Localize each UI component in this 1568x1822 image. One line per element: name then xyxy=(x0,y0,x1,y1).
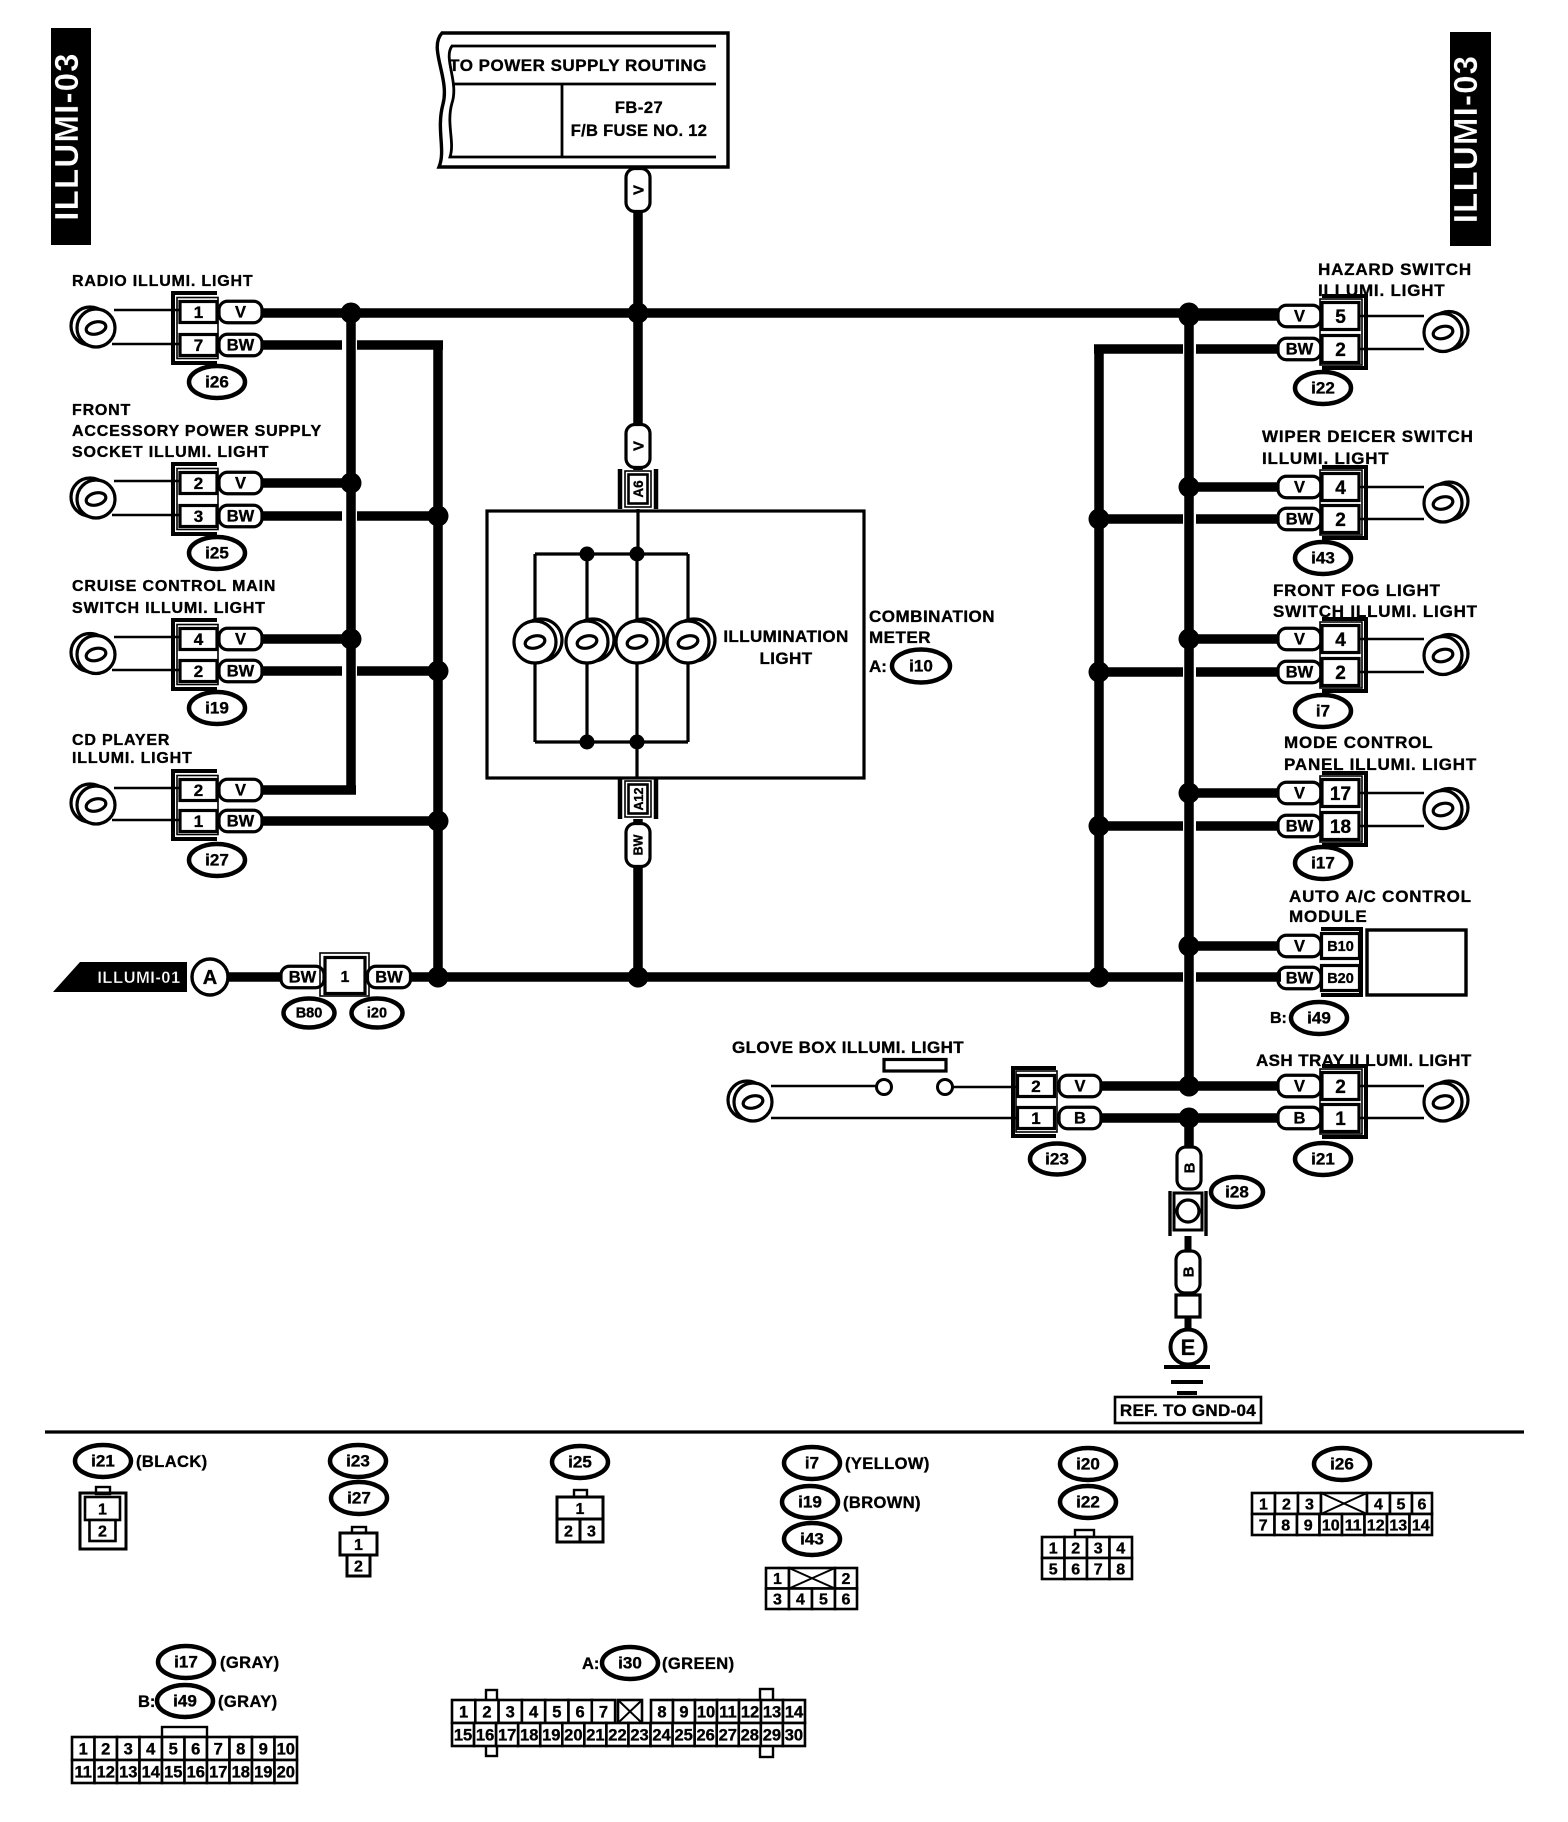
bulb radio illumi light xyxy=(71,307,115,347)
wire V mode control panel illumi light xyxy=(1189,788,1281,798)
meter lamp bottom rail xyxy=(535,740,688,743)
wire V hazard switch illumi light xyxy=(1189,311,1281,321)
svg-text:V: V xyxy=(1294,937,1305,955)
combination meter box xyxy=(487,511,864,778)
svg-text:6: 6 xyxy=(576,1703,585,1721)
legend oval i20 xyxy=(1060,1448,1116,1480)
legend oval i23 xyxy=(330,1445,386,1477)
meter internal return stem xyxy=(635,742,638,778)
svg-text:MODULE: MODULE xyxy=(1289,907,1367,926)
svg-text:i26: i26 xyxy=(205,373,229,392)
legend oval i26 xyxy=(1314,1448,1370,1480)
pin 3 front accessory power supply socket illumi light xyxy=(180,506,217,527)
svg-text:17: 17 xyxy=(498,1726,516,1744)
svg-text:A:: A: xyxy=(582,1655,599,1673)
svg-text:8: 8 xyxy=(657,1703,666,1721)
svg-text:REF. TO GND-04: REF. TO GND-04 xyxy=(1120,1401,1256,1420)
terminal box above ground xyxy=(1176,1295,1200,1317)
svg-text:8: 8 xyxy=(1116,1561,1125,1578)
svg-text:10: 10 xyxy=(697,1703,715,1721)
pinout i26 xyxy=(1252,1493,1432,1535)
svg-text:BW: BW xyxy=(375,968,403,986)
wire BW socket to riser xyxy=(259,511,443,521)
svg-text:i20: i20 xyxy=(1076,1455,1100,1474)
svg-text:CD PLAYER: CD PLAYER xyxy=(72,732,170,749)
svg-text:4: 4 xyxy=(796,1592,805,1609)
wire label V radio illumi light xyxy=(219,301,262,323)
svg-text:5: 5 xyxy=(1049,1561,1058,1578)
svg-text:2: 2 xyxy=(98,1523,107,1540)
svg-text:V: V xyxy=(1294,630,1305,648)
wire BW front fog light switch illumi light xyxy=(1099,667,1281,677)
junction B wire / ground drop xyxy=(1179,1108,1200,1129)
svg-text:i26: i26 xyxy=(1330,1455,1354,1474)
legend oval i27 xyxy=(331,1482,387,1514)
wire label BW radio illumi light xyxy=(219,334,262,356)
svg-text:(GRAY): (GRAY) xyxy=(220,1654,280,1672)
connector oval i43 wiper deicer switch illumi light xyxy=(1295,542,1351,574)
bulb glove box xyxy=(728,1081,772,1121)
wire B glove box to ash tray xyxy=(1101,1113,1281,1123)
wire V front fog light switch illumi light xyxy=(1189,634,1281,644)
svg-text:i17: i17 xyxy=(1311,854,1335,873)
svg-text:3: 3 xyxy=(124,1740,133,1758)
wire to ground E xyxy=(1185,1317,1192,1330)
svg-text:ILLUMI-01: ILLUMI-01 xyxy=(97,969,180,987)
bulb ash tray xyxy=(1424,1081,1468,1121)
wire V main bus to combination meter xyxy=(633,313,643,470)
pinout i21 xyxy=(80,1487,126,1549)
svg-text:B: B xyxy=(1294,1109,1306,1127)
svg-text:1: 1 xyxy=(773,1571,782,1588)
svg-text:17: 17 xyxy=(1330,784,1351,805)
wire label BW cruise control main switch illumi light xyxy=(219,660,262,682)
wire label BW wiper deicer switch illumi light xyxy=(1278,508,1321,530)
svg-text:A12: A12 xyxy=(632,787,646,810)
svg-text:14: 14 xyxy=(785,1703,804,1721)
svg-text:B10: B10 xyxy=(1327,939,1354,955)
legend label B: i49 xyxy=(138,1693,155,1711)
svg-text:3: 3 xyxy=(194,507,203,526)
wire BW hazard switch illumi light xyxy=(1099,344,1281,354)
wire label BW from meter xyxy=(626,824,650,867)
junction left V riser / i25 V xyxy=(341,473,362,494)
svg-text:4: 4 xyxy=(1374,1496,1383,1513)
svg-text:A: A xyxy=(203,967,217,989)
junction meter rail bottom right xyxy=(630,735,645,750)
leads glove box xyxy=(771,1086,1018,1118)
connector outline glove box i23 xyxy=(1016,1071,1057,1132)
svg-text:i19: i19 xyxy=(798,1493,822,1512)
svg-text:6: 6 xyxy=(1418,1496,1427,1513)
svg-text:1: 1 xyxy=(98,1501,107,1518)
glove box switch xyxy=(877,1060,953,1095)
connector bracket hazard switch illumi light xyxy=(1322,296,1366,368)
svg-text:2: 2 xyxy=(1335,1077,1346,1098)
label GLOVE BOX ILLUMI. LIGHT xyxy=(732,1038,964,1057)
svg-text:LIGHT: LIGHT xyxy=(760,649,813,668)
wire label V cd player illumi light xyxy=(219,779,262,801)
svg-text:(BROWN): (BROWN) xyxy=(843,1494,921,1512)
svg-text:5: 5 xyxy=(552,1703,561,1721)
svg-text:WIPER DEICER SWITCH: WIPER DEICER SWITCH xyxy=(1262,427,1474,446)
svg-text:FB-27: FB-27 xyxy=(615,99,663,117)
node A (to ILLUMI-01) xyxy=(192,959,228,995)
wire label BW (B80 side) xyxy=(281,966,324,988)
pin 18 mode control panel illumi light xyxy=(1322,813,1359,840)
auto a/c control module box xyxy=(1367,930,1466,995)
connector oval i17 mode control panel illumi light xyxy=(1295,847,1351,879)
wire label V cruise control main switch illumi light xyxy=(219,628,262,650)
svg-text:i30: i30 xyxy=(618,1654,642,1673)
svg-text:2: 2 xyxy=(194,474,203,493)
pinout i43 xyxy=(766,1568,857,1609)
svg-text:6: 6 xyxy=(1071,1561,1080,1578)
right V riser wire xyxy=(1184,313,1194,1086)
svg-text:2: 2 xyxy=(194,662,203,681)
svg-text:2: 2 xyxy=(1031,1077,1040,1096)
junction bottom bus / right BW riser xyxy=(1089,967,1110,988)
connector bracket front fog light switch illumi light xyxy=(1322,619,1366,691)
svg-text:i43: i43 xyxy=(800,1530,824,1549)
svg-text:BW: BW xyxy=(1286,969,1314,987)
connector bracket wiper deicer switch illumi light xyxy=(1322,467,1366,538)
junction main bus / right V riser xyxy=(1179,303,1200,324)
legend oval i43 xyxy=(784,1523,840,1555)
svg-text:19: 19 xyxy=(254,1763,272,1781)
svg-text:19: 19 xyxy=(542,1726,560,1744)
legend oval i7 xyxy=(784,1447,840,1479)
connector outline hazard switch illumi light xyxy=(1320,299,1362,365)
svg-text:13: 13 xyxy=(119,1763,137,1781)
svg-text:FRONT FOG LIGHT: FRONT FOG LIGHT xyxy=(1273,581,1441,600)
svg-text:7: 7 xyxy=(1094,1561,1103,1578)
illumination lamp 3 xyxy=(616,619,664,663)
leads cd player illumi light xyxy=(112,788,180,820)
svg-text:30: 30 xyxy=(785,1726,803,1744)
left V riser tap to i19 xyxy=(259,634,351,644)
pin 2 front fog light switch illumi light xyxy=(1322,659,1359,686)
junction V riser hazard switch illumi light xyxy=(1179,306,1200,327)
wire BW cruise to riser xyxy=(259,666,443,676)
label front fog light switch illumi light xyxy=(1273,581,1478,621)
svg-text:i17: i17 xyxy=(174,1653,198,1672)
wire B drop from junction xyxy=(1184,1118,1194,1148)
wire BW from meter to bottom bus xyxy=(633,819,643,977)
svg-text:7: 7 xyxy=(214,1740,223,1758)
svg-text:GLOVE BOX ILLUMI. LIGHT: GLOVE BOX ILLUMI. LIGHT xyxy=(732,1038,964,1057)
pinout i23/i27 xyxy=(340,1527,377,1576)
svg-text:12: 12 xyxy=(741,1703,759,1721)
label wiper deicer switch illumi light xyxy=(1262,427,1474,468)
svg-text:V: V xyxy=(1294,784,1305,802)
svg-text:27: 27 xyxy=(719,1726,737,1744)
connector oval i49 xyxy=(1291,1002,1347,1034)
junction main bus / power feed xyxy=(628,303,649,324)
junction V riser front fog light switch illumi light xyxy=(1179,629,1200,650)
svg-text:CRUISE CONTROL MAIN: CRUISE CONTROL MAIN xyxy=(72,578,276,595)
left V riser wire xyxy=(259,313,356,790)
svg-text:V: V xyxy=(630,441,647,451)
svg-text:1: 1 xyxy=(79,1740,88,1758)
illumination lamp 4 xyxy=(667,619,715,663)
svg-text:i28: i28 xyxy=(1225,1183,1249,1202)
wire V to auto a/c module xyxy=(1189,941,1281,951)
svg-text:i23: i23 xyxy=(346,1452,370,1471)
pin 2 glove box xyxy=(1018,1076,1055,1097)
svg-text:i22: i22 xyxy=(1311,379,1335,398)
wire label V wiper deicer switch illumi light xyxy=(1278,476,1321,498)
svg-text:2: 2 xyxy=(194,781,203,800)
bulb cruise control main switch illumi light xyxy=(71,634,115,674)
connector bracket cruise control main switch illumi light xyxy=(173,620,217,689)
legend oval i25 xyxy=(552,1446,608,1478)
svg-text:V: V xyxy=(630,185,647,195)
pin 5 hazard switch illumi light xyxy=(1322,303,1359,330)
junction meter rail top left xyxy=(580,547,595,562)
wire label BW cd player illumi light xyxy=(219,810,262,832)
wire between i28 and lower B xyxy=(1185,1236,1192,1253)
wire label B (lower) xyxy=(1176,1251,1200,1293)
wire label BW (i20 side) xyxy=(368,966,411,988)
connector oval i27 cd player illumi light xyxy=(189,844,245,876)
svg-text:(BLACK): (BLACK) xyxy=(136,1453,208,1471)
bulb mode control panel illumi light xyxy=(1424,789,1468,829)
junction V riser / auto a/c xyxy=(1179,936,1200,957)
svg-text:ILLUMI. LIGHT: ILLUMI. LIGHT xyxy=(72,750,193,767)
pin 2 hazard switch illumi light xyxy=(1322,336,1359,363)
meter internal feed stem xyxy=(636,509,639,556)
svg-text:1: 1 xyxy=(576,1501,585,1518)
svg-text:13: 13 xyxy=(1389,1517,1407,1534)
svg-text:B: B xyxy=(1180,1266,1197,1277)
svg-text:V: V xyxy=(235,303,246,321)
svg-text:V: V xyxy=(1074,1077,1085,1095)
svg-text:i49: i49 xyxy=(173,1692,197,1711)
svg-text:BW: BW xyxy=(227,812,255,830)
legend label (GRAY) i17 xyxy=(220,1654,280,1672)
svg-text:4: 4 xyxy=(1335,630,1346,651)
svg-text:18: 18 xyxy=(520,1726,538,1744)
svg-text:METER: METER xyxy=(869,628,931,647)
svg-text:i49: i49 xyxy=(1307,1009,1331,1028)
connector outline cd player illumi light xyxy=(177,776,218,835)
svg-text:14: 14 xyxy=(142,1763,161,1781)
pin 1 cd player illumi light xyxy=(180,811,217,832)
wire V wiper deicer switch illumi light xyxy=(1189,482,1281,492)
svg-text:4: 4 xyxy=(1335,478,1346,499)
meter lamp branch 3 xyxy=(635,554,638,742)
legend oval i30 xyxy=(602,1647,658,1679)
connector A12 combination meter xyxy=(620,779,656,819)
left V riser tap to i25 xyxy=(259,478,351,488)
wire BW wiper deicer switch illumi light xyxy=(1099,514,1281,524)
svg-text:B:: B: xyxy=(1270,1010,1287,1027)
connector outline front fog light switch illumi light xyxy=(1320,622,1362,688)
svg-text:i27: i27 xyxy=(205,851,229,870)
junction bottom bus / left BW riser xyxy=(428,967,449,988)
label B: i49 xyxy=(1270,1010,1287,1027)
svg-text:4: 4 xyxy=(1116,1540,1125,1557)
svg-text:i19: i19 xyxy=(205,699,229,718)
label ILLUMINATION LIGHT xyxy=(723,627,848,668)
svg-text:2: 2 xyxy=(564,1523,573,1540)
svg-text:i25: i25 xyxy=(568,1453,592,1472)
svg-text:E: E xyxy=(1181,1335,1196,1360)
label cd player illumi light xyxy=(72,732,193,767)
pinout i25 xyxy=(557,1490,603,1542)
svg-text:i25: i25 xyxy=(205,544,229,563)
svg-text:1: 1 xyxy=(1049,1540,1058,1557)
svg-text:12: 12 xyxy=(97,1763,115,1781)
power source box TO POWER SUPPLY ROUTING / FB-27 F/B FUSE NO. 12 xyxy=(437,33,728,167)
svg-text:ILLUMI-03: ILLUMI-03 xyxy=(48,52,85,220)
svg-text:COMBINATION: COMBINATION xyxy=(869,607,995,626)
svg-text:4: 4 xyxy=(529,1703,539,1721)
wire V glove box to ash tray xyxy=(1101,1081,1281,1091)
svg-text:1: 1 xyxy=(1259,1496,1268,1513)
svg-text:BW: BW xyxy=(227,662,255,680)
svg-text:i23: i23 xyxy=(1045,1150,1069,1169)
legend oval i17 xyxy=(158,1646,214,1678)
svg-text:i21: i21 xyxy=(1311,1150,1335,1169)
svg-text:V: V xyxy=(235,474,246,492)
connector bracket ash tray xyxy=(1322,1066,1366,1137)
svg-text:ILLUMI-03: ILLUMI-03 xyxy=(1447,55,1484,223)
svg-text:(YELLOW): (YELLOW) xyxy=(845,1455,930,1473)
svg-text:6: 6 xyxy=(842,1592,851,1609)
junction left V riser / i19 V xyxy=(341,629,362,650)
connector outline mode control panel illumi light xyxy=(1320,776,1362,842)
wire label B (upper) xyxy=(1177,1147,1201,1189)
wire BW mode control panel illumi light xyxy=(1099,821,1281,831)
reference box REF. TO GND-04 xyxy=(1115,1397,1261,1423)
svg-text:B:: B: xyxy=(138,1693,155,1711)
junction left BW riser / i25 BW xyxy=(428,506,449,527)
svg-text:18: 18 xyxy=(232,1763,250,1781)
legend label (BROWN) xyxy=(843,1494,921,1512)
label ASH TRAY ILLUMI. LIGHT xyxy=(1256,1051,1472,1070)
svg-text:B20: B20 xyxy=(1327,971,1354,987)
svg-text:B: B xyxy=(1181,1162,1198,1173)
junction V riser mode control panel illumi light xyxy=(1179,783,1200,804)
svg-text:V: V xyxy=(1294,1077,1305,1095)
svg-text:SWITCH ILLUMI. LIGHT: SWITCH ILLUMI. LIGHT xyxy=(1273,602,1478,621)
pin 4 wiper deicer switch illumi light xyxy=(1322,474,1359,501)
connector oval i7 front fog light switch illumi light xyxy=(1295,695,1351,727)
main V bus wire (top horizontal) xyxy=(259,308,1281,318)
svg-text:15: 15 xyxy=(164,1763,182,1781)
svg-text:3: 3 xyxy=(506,1703,515,1721)
pin 1 ash tray xyxy=(1322,1105,1359,1132)
legend oval i19 xyxy=(782,1486,838,1518)
meter lamp branch 2 xyxy=(585,554,588,742)
svg-text:22: 22 xyxy=(608,1726,626,1744)
legend label (GREEN) xyxy=(662,1655,734,1673)
junction bottom bus / meter BW xyxy=(628,967,649,988)
connector oval i22 hazard switch illumi light xyxy=(1295,372,1351,404)
pin B20 auto a/c xyxy=(1322,966,1360,991)
legend label (GRAY) i49 xyxy=(218,1693,278,1711)
connector oval B80 xyxy=(284,999,335,1028)
connector flag ILLUMI-01 xyxy=(53,962,187,992)
label front accessory power supply socket illumi light xyxy=(72,402,322,461)
pin 2 ash tray xyxy=(1322,1073,1359,1100)
junction left BW riser / i27 BW xyxy=(428,811,449,832)
junction BW riser wiper deicer switch illumi light xyxy=(1089,509,1110,530)
wire label V mode control panel illumi light xyxy=(1278,782,1321,804)
svg-text:2: 2 xyxy=(1335,510,1346,531)
svg-text:5: 5 xyxy=(819,1592,828,1609)
separator line xyxy=(45,1430,1524,1433)
pinout i30 xyxy=(452,1689,805,1757)
svg-text:B: B xyxy=(1074,1109,1086,1127)
svg-text:3: 3 xyxy=(1305,1496,1314,1513)
svg-text:2: 2 xyxy=(101,1740,110,1758)
meter lamp branch 1 xyxy=(533,554,536,742)
wire label V ash tray xyxy=(1278,1075,1321,1097)
connector i28 symbol xyxy=(1170,1191,1206,1236)
pin 2 front accessory power supply socket illumi light xyxy=(180,473,217,494)
svg-text:i10: i10 xyxy=(909,657,933,676)
svg-text:21: 21 xyxy=(586,1726,604,1744)
bulb cd player illumi light xyxy=(71,784,115,824)
svg-text:1: 1 xyxy=(459,1703,468,1721)
leads front accessory power supply socket illumi light xyxy=(112,481,180,515)
svg-text:AUTO A/C CONTROL: AUTO A/C CONTROL xyxy=(1289,887,1472,906)
title banner ILLUMI-03 top-right xyxy=(1447,32,1491,246)
svg-text:V: V xyxy=(235,781,246,799)
leads radio illumi light xyxy=(112,310,180,344)
svg-text:i20: i20 xyxy=(367,1006,387,1022)
pinout i20/i22 xyxy=(1042,1530,1132,1579)
svg-text:i7: i7 xyxy=(805,1454,819,1473)
legend oval i22 xyxy=(1060,1486,1116,1518)
connector outline cruise control main switch illumi light xyxy=(177,625,218,685)
ground node E xyxy=(1171,1330,1206,1365)
svg-text:11: 11 xyxy=(1345,1517,1362,1534)
svg-text:7: 7 xyxy=(1259,1517,1268,1534)
wire label BW hazard switch illumi light xyxy=(1278,338,1321,360)
svg-text:1: 1 xyxy=(194,303,203,322)
svg-text:MODE CONTROL: MODE CONTROL xyxy=(1284,733,1433,752)
svg-text:A6: A6 xyxy=(631,480,646,498)
pin 1 radio illumi light xyxy=(180,302,217,323)
pin 7 radio illumi light xyxy=(180,335,217,356)
svg-text:i21: i21 xyxy=(91,1452,115,1471)
svg-text:20: 20 xyxy=(277,1763,295,1781)
inline connector 1 (B80/i20) xyxy=(320,953,369,996)
leads hazard switch illumi light xyxy=(1359,316,1424,349)
svg-text:7: 7 xyxy=(194,336,203,355)
svg-text:BW: BW xyxy=(289,968,317,986)
svg-text:HAZARD SWITCH: HAZARD SWITCH xyxy=(1318,260,1472,279)
connector oval i19 cruise control main switch illumi light xyxy=(189,692,245,724)
svg-text:24: 24 xyxy=(652,1726,671,1744)
svg-text:13: 13 xyxy=(763,1703,781,1721)
junction left BW riser / i19 BW xyxy=(428,661,449,682)
pin 4 front fog light switch illumi light xyxy=(1322,626,1359,653)
connector bracket front accessory power supply socket illumi light xyxy=(173,464,217,534)
left BW riser wire xyxy=(433,345,443,977)
wire label V below power box xyxy=(626,169,650,212)
svg-text:V: V xyxy=(235,630,246,648)
svg-text:3: 3 xyxy=(773,1592,782,1609)
connector bracket radio illumi light xyxy=(173,293,217,363)
connector oval i26 radio illumi light xyxy=(189,366,245,398)
svg-text:FRONT: FRONT xyxy=(72,402,131,419)
junction BW riser mode control panel illumi light xyxy=(1089,816,1110,837)
